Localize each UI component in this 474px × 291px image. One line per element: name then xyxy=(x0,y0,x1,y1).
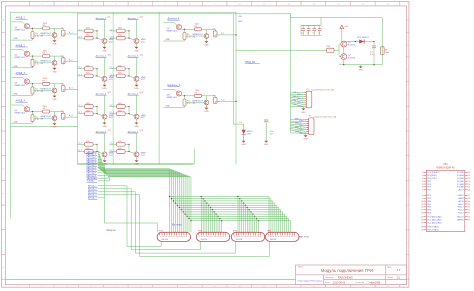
svg-text:GND: GND xyxy=(102,126,107,128)
wire R to base xyxy=(50,28,55,32)
wire Q7 emitter to ground rail xyxy=(343,60,345,65)
wire: second top rail y=14.8 to power section xyxy=(78,13,291,15)
node АНОД_Т net label xyxy=(88,197,98,200)
wire grid input xyxy=(236,49,327,51)
ground xyxy=(52,38,57,46)
wire collector to R xyxy=(181,95,194,97)
svg-text:GND: GND xyxy=(14,38,19,40)
junction dots xyxy=(128,106,129,114)
junction dots on bus line КАТОД_0 xyxy=(169,196,239,197)
svg-text:PC3/A3: PC3/A3 xyxy=(457,177,465,180)
svg-text:Drawn By:: Drawn By: xyxy=(356,282,366,284)
wire bus line ЗАПЯТАЯ xyxy=(98,176,190,232)
transistor Q20 xyxy=(193,100,209,105)
node ЗАПЯТАЯ net label xyxy=(87,177,98,180)
node АНОД_1 net label xyxy=(88,185,98,188)
wire Ra in xyxy=(109,29,116,31)
node КАТОД_9 net label xyxy=(87,174,98,177)
transistor Q8 xyxy=(41,116,57,121)
svg-text:RADIONEWS: RADIONEWS xyxy=(338,276,353,279)
wire Ra in xyxy=(109,105,116,107)
wire P1 pin 7 xyxy=(290,102,306,107)
resistor R base vertical xyxy=(31,59,39,66)
transistor Q6 xyxy=(41,60,57,65)
svg-text:C1_2: C1_2 xyxy=(78,37,82,39)
transistor Q5 xyxy=(341,41,356,47)
svg-text:3: 3 xyxy=(422,178,423,180)
svg-text:29: 29 xyxy=(468,201,470,203)
wire bus line КАТОД_6 xyxy=(98,168,182,233)
node pin 23 PC2/A2 xyxy=(457,180,470,183)
resistor Rb xyxy=(117,148,126,153)
node АНОД_4 net label xyxy=(16,100,28,103)
svg-text:PC1 (ADC1/A1): PC1 (ADC1/A1) xyxy=(427,219,441,222)
node ТОЧКА net label xyxy=(87,180,98,183)
wire bus line КАТОД_0 xyxy=(98,152,170,233)
wire collector drop xyxy=(97,57,105,76)
resistor R top xyxy=(43,51,50,58)
resistor R9 xyxy=(381,47,389,55)
svg-text:PB3_2: PB3_2 xyxy=(458,213,465,215)
svg-text:PC0 (ADC0/A0): PC0 (ADC0/A0) xyxy=(427,216,441,219)
wire output xyxy=(55,56,64,58)
junction dots xyxy=(96,68,97,76)
svg-text:GND: GND xyxy=(102,88,107,90)
wire Rb in xyxy=(109,112,116,114)
svg-text:150k: 150k xyxy=(86,141,90,143)
wire cap bank rails xyxy=(301,18,322,36)
wire collector drop xyxy=(129,20,137,39)
svg-text:150k: 150k xyxy=(86,148,90,150)
svg-text:4.7k: 4.7k xyxy=(35,119,39,121)
wire base row xyxy=(184,29,186,32)
node КАТОД_3 net label xyxy=(87,158,98,161)
svg-text:PD0(RXD): PD0(RXD) xyxy=(427,175,437,177)
svg-text:C1: C1 xyxy=(301,33,303,35)
wire base row xyxy=(184,96,186,99)
resistor R out xyxy=(213,29,217,37)
wire bus line ТОЧКА xyxy=(98,177,191,232)
resistor Ra xyxy=(85,141,94,146)
node pin 3 PD1(TXD) xyxy=(422,178,437,180)
wire anode route АНОД_3 xyxy=(98,192,236,253)
svg-text:ADC6: ADC6 xyxy=(458,200,464,203)
wire P2 pin 8 xyxy=(290,130,308,135)
wire Ra in xyxy=(77,29,84,31)
svg-text:14: 14 xyxy=(421,213,423,215)
node pin 5 PD3 xyxy=(422,184,432,186)
wire bottom stub xyxy=(11,122,32,124)
svg-text:GND: GND xyxy=(52,127,57,129)
wire Ra in xyxy=(77,67,84,69)
wire: left group bottom xyxy=(10,125,77,127)
ground xyxy=(134,81,139,90)
wire R outputs xyxy=(125,31,134,40)
wire: middle group bottom rail xyxy=(78,149,195,164)
resistor Rb xyxy=(117,73,126,78)
resistor Ra xyxy=(117,65,126,70)
svg-text:J: J xyxy=(3,243,4,245)
svg-text:9: 9 xyxy=(422,198,423,200)
node pin 15 PC0 (ADC0/A0) xyxy=(421,216,442,219)
svg-text:C1_2: C1_2 xyxy=(78,150,82,152)
svg-text:Company:: Company: xyxy=(325,277,335,279)
node pin 24 PC1/A1 xyxy=(457,183,470,186)
company row xyxy=(325,276,400,280)
wire Rb in xyxy=(109,74,116,76)
wire P1 pin 4 xyxy=(290,97,306,100)
ground xyxy=(204,105,209,113)
node pin 17 PC2 (ADC2/A2) xyxy=(421,221,442,224)
node pin 8 PD6 xyxy=(422,195,432,197)
connector ЛН2 nixie socket xyxy=(196,231,230,242)
svg-text:150k: 150k xyxy=(118,103,122,105)
node pin 1 PC6 (RESET) xyxy=(422,172,440,174)
resistor Rb xyxy=(85,35,94,40)
svg-text:150k: 150k xyxy=(43,106,47,108)
svg-text:C1_1: C1_1 xyxy=(110,143,114,145)
svg-text:17: 17 xyxy=(421,222,423,224)
wire base row xyxy=(32,112,34,115)
wire P2 pin 5 xyxy=(290,126,308,129)
node Десяток_0 net label xyxy=(96,17,110,20)
svg-text:GND: GND xyxy=(358,70,363,72)
node pin 35 AREF2 xyxy=(457,219,470,222)
junction dots xyxy=(96,30,97,38)
transistor Q7 xyxy=(341,54,356,60)
wire bus line КАТОД_5 xyxy=(98,165,180,232)
resistor R out xyxy=(61,84,65,92)
wire bus line КАТОД_2 xyxy=(98,157,174,232)
svg-text:Jumper Female 0.5V_1x8: Jumper Female 0.5V_1x8 xyxy=(311,90,335,92)
resistor R base vertical xyxy=(183,33,191,40)
node pin 32 PB4_2 xyxy=(458,210,470,212)
svg-text:PC2 (ADC2/A2): PC2 (ADC2/A2) xyxy=(427,221,441,224)
junction dots xyxy=(96,106,97,114)
junction dots on bus line КАТОД_1 xyxy=(171,198,241,199)
svg-text:26: 26 xyxy=(468,190,470,192)
svg-text:Q10: Q10 xyxy=(140,17,143,19)
node pin 20 PC5/A5 xyxy=(457,171,470,174)
svg-text:MMBT5401: MMBT5401 xyxy=(167,30,178,32)
wire Rb in xyxy=(77,150,84,152)
ground xyxy=(134,44,139,53)
transistor Q9 xyxy=(102,39,114,44)
svg-text:GND: GND xyxy=(52,44,57,46)
wire Ra in xyxy=(109,143,116,145)
svg-text:15: 15 xyxy=(421,217,423,219)
resistor Ra xyxy=(117,103,126,108)
svg-text:22: 22 xyxy=(468,178,470,180)
wire R to base xyxy=(50,84,55,88)
wire P2 pin 7 xyxy=(290,128,308,133)
svg-text:C1_1: C1_1 xyxy=(78,67,82,69)
wire base row xyxy=(32,56,34,59)
node КАТОД_7 net label xyxy=(87,169,98,172)
svg-text:ADC7: ADC7 xyxy=(458,189,464,192)
wire АНОД_2 to base of Q2 xyxy=(11,50,25,53)
transistor Q18 xyxy=(193,34,209,39)
wire output xyxy=(207,29,216,31)
wire R outputs xyxy=(93,107,102,116)
node Десяток_2 net label xyxy=(96,54,111,57)
junction dots xyxy=(96,144,97,152)
resistor Ra xyxy=(85,103,94,108)
node КАТОД_5 net label xyxy=(87,164,98,167)
transistor Q11 xyxy=(102,76,114,81)
svg-text:1: 1 xyxy=(422,172,423,174)
svg-text:GND: GND xyxy=(14,94,19,96)
wire R to base xyxy=(202,96,207,100)
node +5В net label xyxy=(238,16,243,23)
resistor R out xyxy=(213,96,217,104)
wire output xyxy=(55,28,64,30)
resistor Rb xyxy=(117,110,126,115)
svg-text:ИН-12Б: ИН-12Б xyxy=(201,239,208,241)
svg-text:C1_2: C1_2 xyxy=(110,150,114,152)
svg-text:32: 32 xyxy=(468,210,470,212)
ground xyxy=(52,93,57,101)
svg-text:C1_1: C1_1 xyxy=(78,105,82,107)
node pin 2 PD0(RXD) xyxy=(422,175,437,177)
wire emitter junction xyxy=(343,47,345,54)
svg-text:4.7k: 4.7k xyxy=(187,37,191,39)
svg-text:10: 10 xyxy=(421,201,423,203)
wire connector taps ТОЧКА xyxy=(222,221,259,233)
wire Rb in xyxy=(77,37,84,39)
wire output extension xyxy=(230,100,237,102)
wire output rail y=41.5 xyxy=(342,41,374,43)
svg-text:C1_1: C1_1 xyxy=(110,67,114,69)
svg-text:2: 2 xyxy=(422,175,423,177)
wire bus line КАТОД_7 xyxy=(98,170,184,232)
svg-text:МИН_8: МИН_8 xyxy=(299,133,305,135)
svg-text:MMBT5401: MMBT5401 xyxy=(15,57,26,59)
wire collector drop xyxy=(129,95,137,114)
junction dots on bus line КАТОД_3 xyxy=(175,202,245,203)
diode VD1 1N4007 xyxy=(355,37,370,44)
node КАТОД_6 net label xyxy=(87,166,98,169)
svg-text:AVCC: AVCC xyxy=(458,203,464,206)
node АНОД_2 net label xyxy=(16,44,28,47)
svg-text:6517: 6517 xyxy=(109,117,113,119)
svg-text:REV:: REV: xyxy=(387,267,392,269)
svg-text:AVCC2: AVCC2 xyxy=(457,216,464,219)
svg-text:ATMEGA328P-AU: ATMEGA328P-AU xyxy=(436,167,455,170)
node pin 34 AVCC2 xyxy=(457,216,470,219)
junction dots on bus line КАТОД_7 xyxy=(182,211,251,212)
svg-text:150k: 150k xyxy=(118,110,122,112)
svg-text:GND: GND xyxy=(166,106,171,108)
wire R outputs xyxy=(125,69,134,78)
svg-text:13: 13 xyxy=(421,210,423,212)
transistor Q17 xyxy=(167,24,182,32)
capacitor C10 xyxy=(264,120,274,146)
wire output xyxy=(55,84,64,86)
svg-text:C4: C4 xyxy=(318,33,320,35)
ground xyxy=(102,157,107,166)
svg-text:2019-06-03: 2019-06-03 xyxy=(333,282,346,285)
wire P2 pin 6 xyxy=(290,127,308,131)
svg-text:ИН-12Б: ИН-12Б xyxy=(236,239,243,241)
node pin 13 PB3 xyxy=(421,210,432,212)
svg-text:ИН-12Б: ИН-12Б xyxy=(162,239,169,241)
svg-text:150k: 150k xyxy=(118,148,122,150)
op-amp U1 ATMEGA328P body xyxy=(426,164,465,232)
wire connector taps КАТОД_0 xyxy=(201,197,238,233)
wire dot-anode route xyxy=(104,165,157,233)
svg-text:VD1 1N4007: VD1 1N4007 xyxy=(357,37,370,39)
node pin 33 PB3_2 xyxy=(458,213,470,215)
resistor Rb xyxy=(85,148,94,153)
wire Единицы_А to base of Q19 xyxy=(163,89,177,92)
transistor Q10 xyxy=(134,39,146,44)
svg-text:150k: 150k xyxy=(86,110,90,112)
svg-text:6517: 6517 xyxy=(141,41,145,43)
resistor R top xyxy=(195,90,202,97)
svg-text:GND: GND xyxy=(303,139,308,141)
svg-text:Q14: Q14 xyxy=(140,92,143,94)
svg-text:24: 24 xyxy=(468,184,470,186)
svg-text:4.7u: 4.7u xyxy=(370,54,374,56)
node pin 27 GND/2 xyxy=(458,195,471,197)
svg-text:150k: 150k xyxy=(86,28,90,30)
wire collector to R xyxy=(181,28,194,30)
wire Десятки_А to base of Q17 xyxy=(163,23,177,26)
wire ground rail xyxy=(339,64,382,66)
svg-text:Сборка модуля ГРИ в Спринте: Сборка модуля ГРИ в Спринте xyxy=(297,280,322,282)
wire anode route АНОД_2 xyxy=(98,189,201,250)
svg-text:MMBT5401: MMBT5401 xyxy=(15,85,26,87)
node ГРИД_5В net label xyxy=(245,62,260,64)
wire connector taps КАТОД_5 xyxy=(211,208,248,233)
wire: column divider x=159 xyxy=(158,12,160,164)
wire: column divider x=77.6 xyxy=(77,12,79,164)
node pin 26 ADC7 xyxy=(458,189,470,192)
resistor Rb xyxy=(85,73,94,78)
wire connector taps КАТОД_8 xyxy=(216,214,253,232)
svg-text:4n7: 4n7 xyxy=(270,134,273,136)
svg-text:U$1: U$1 xyxy=(443,164,448,166)
svg-text:33: 33 xyxy=(468,213,470,215)
resistor R base vertical xyxy=(183,99,191,106)
frame lower divider line xyxy=(6,279,296,281)
svg-text:C3: C3 xyxy=(312,33,314,35)
svg-text:28: 28 xyxy=(468,198,470,200)
svg-text:C2: C2 xyxy=(307,33,309,35)
svg-text:GND: GND xyxy=(134,88,139,90)
svg-text:MMBT5401: MMBT5401 xyxy=(167,97,178,99)
svg-text:150k: 150k xyxy=(118,35,122,37)
svg-text:4: 4 xyxy=(422,181,423,183)
svg-text:16: 16 xyxy=(421,220,423,222)
node КАТОД_0 net label xyxy=(87,150,98,153)
svg-text:150k: 150k xyxy=(43,51,47,53)
svg-text:ИН-12Б: ИН-12Б xyxy=(270,239,277,241)
node АНОД_4 net label xyxy=(88,194,98,197)
svg-text:Q12: Q12 xyxy=(140,54,143,56)
svg-text:Q11: Q11 xyxy=(108,54,111,56)
svg-text:AREF: AREF xyxy=(458,197,464,200)
svg-text:150k: 150k xyxy=(118,65,122,67)
svg-text:GND: GND xyxy=(301,112,306,114)
node pin 22 PC3/A3 xyxy=(457,177,470,180)
resistor R out xyxy=(61,111,65,119)
svg-text:D1: D1 xyxy=(240,122,242,124)
resistor Ra xyxy=(85,28,94,33)
wire collector drop xyxy=(97,95,105,114)
junction dots on bus line КАТОД_8 xyxy=(184,213,253,214)
ground xyxy=(134,157,139,166)
svg-text:PC2/A2: PC2/A2 xyxy=(457,180,465,183)
transistor Q14 xyxy=(134,114,146,119)
node КАТОД_1 net label xyxy=(87,153,98,156)
node pin 11 PB1 xyxy=(421,204,432,206)
svg-text:1.1: 1.1 xyxy=(397,268,401,272)
node Десяток_3 net label xyxy=(128,54,143,57)
ground xyxy=(134,119,139,128)
node Десяток_4 net label xyxy=(96,92,111,95)
wire Ra in xyxy=(77,143,84,145)
wire R to base xyxy=(202,29,207,33)
svg-text:GND: GND xyxy=(238,21,243,23)
node КАТОД_4 net label xyxy=(87,161,98,164)
resistor R10 xyxy=(326,46,334,52)
wire Ra in xyxy=(109,67,116,69)
capacitor C1 xyxy=(301,26,305,36)
svg-text:150k: 150k xyxy=(118,141,122,143)
svg-text:J: J xyxy=(407,243,408,245)
svg-text:C1_2: C1_2 xyxy=(78,74,82,76)
svg-text:C1_1: C1_1 xyxy=(110,105,114,107)
junction dots xyxy=(128,68,129,76)
transistor Q15 xyxy=(102,152,114,157)
svg-text:4.7k: 4.7k xyxy=(35,91,39,93)
resistor R base vertical xyxy=(31,32,39,39)
svg-text:21: 21 xyxy=(468,175,470,177)
resistor R top xyxy=(195,24,202,31)
junction dots on bus line ТОЧКА xyxy=(190,220,259,221)
node pin 30 AVCC xyxy=(458,203,470,206)
svg-text:25: 25 xyxy=(468,187,470,189)
node Десяток_5 net label xyxy=(128,92,143,95)
junction dots xyxy=(128,144,129,152)
svg-text:GND: GND xyxy=(102,50,107,52)
svg-text:6517: 6517 xyxy=(141,155,145,157)
svg-text:C1_2: C1_2 xyxy=(78,112,82,114)
svg-text:GND: GND xyxy=(134,164,139,166)
node pin 25 PC0/A0 xyxy=(457,186,470,189)
wire: column divider x=236 xyxy=(235,12,237,164)
svg-text:GND: GND xyxy=(14,66,19,68)
svg-text:PB5_2: PB5_2 xyxy=(458,207,465,209)
node pin 16 PC1 (ADC1/A1) xyxy=(421,219,442,222)
node Единицы_А net label xyxy=(168,84,181,87)
svg-text:Вл.точка: Вл.точка xyxy=(172,223,182,226)
svg-text:4.7k: 4.7k xyxy=(35,36,39,38)
svg-text:AREF2: AREF2 xyxy=(457,219,464,222)
svg-text:PC1/A1: PC1/A1 xyxy=(457,183,465,186)
wire x=233.5 feeder xyxy=(234,14,244,124)
resistor Ra xyxy=(117,141,126,146)
svg-text:5: 5 xyxy=(422,184,423,186)
svg-text:150k: 150k xyxy=(86,35,90,37)
node АНОД_1 net label xyxy=(16,17,28,20)
wire АНОД_4 to base of Q4 xyxy=(11,105,25,108)
svg-text:GND: GND xyxy=(264,144,269,146)
svg-text:150k: 150k xyxy=(118,73,122,75)
wire Rb in xyxy=(77,112,84,114)
